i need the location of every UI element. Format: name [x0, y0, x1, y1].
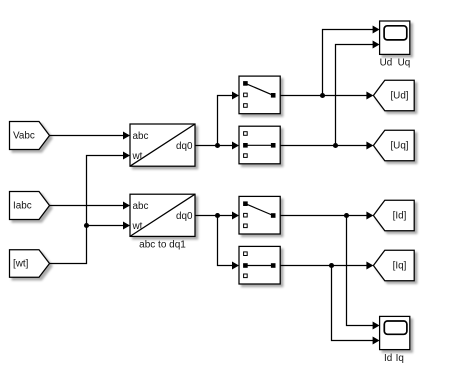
svg-text:[Id]: [Id] — [393, 211, 407, 222]
svg-text:Ud: Ud — [380, 58, 393, 69]
svg-text:Vabc: Vabc — [13, 131, 35, 142]
svg-text:[Ud]: [Ud] — [390, 91, 408, 102]
svg-text:wt: wt — [132, 221, 143, 232]
svg-text:Id: Id — [384, 353, 392, 364]
svg-text:abc: abc — [133, 201, 149, 212]
svg-text:dq0: dq0 — [176, 141, 193, 152]
svg-text:abc to dq1: abc to dq1 — [139, 240, 186, 251]
svg-text:Iq: Iq — [396, 353, 404, 364]
svg-text:[Iq]: [Iq] — [393, 261, 407, 272]
svg-text:[wt]: [wt] — [13, 259, 29, 270]
svg-text:dq0: dq0 — [176, 211, 193, 222]
svg-text:wt: wt — [132, 151, 143, 162]
svg-text:abc: abc — [133, 131, 149, 142]
svg-text:Uq: Uq — [398, 58, 411, 69]
svg-text:[Uq]: [Uq] — [390, 141, 408, 152]
svg-text:Iabc: Iabc — [13, 200, 32, 211]
